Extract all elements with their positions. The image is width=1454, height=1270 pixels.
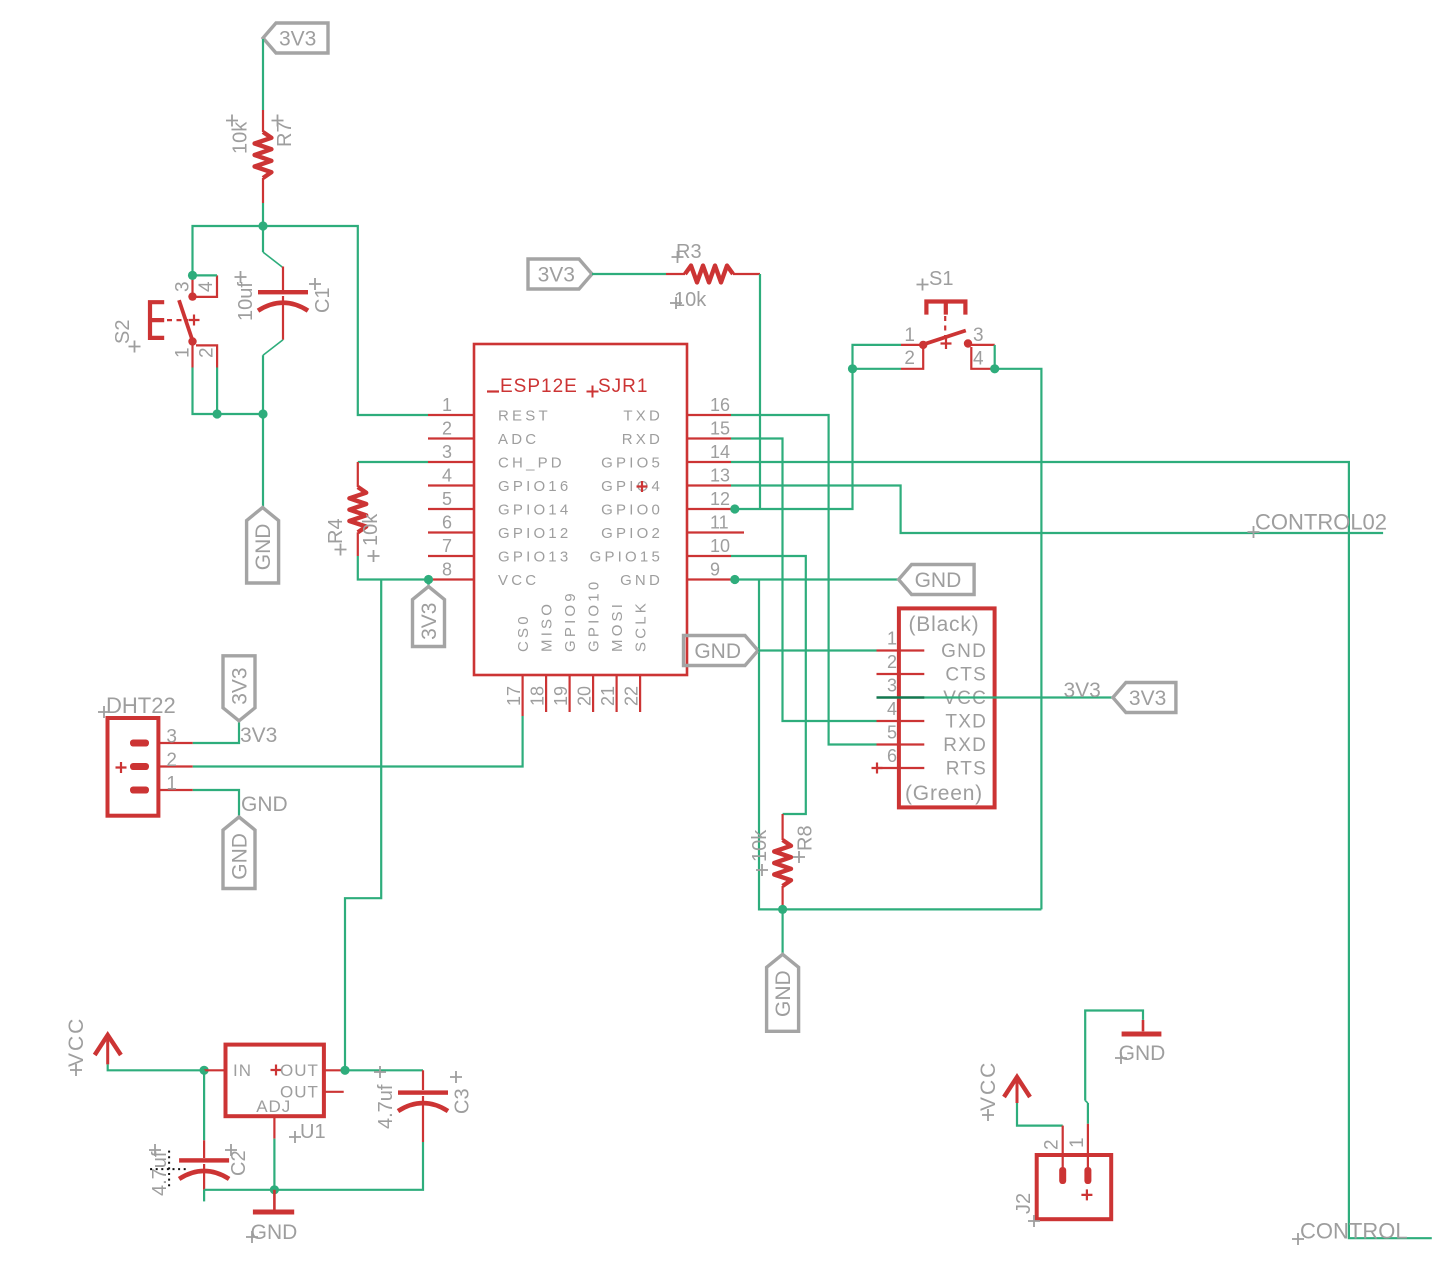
svg-text:(Green): (Green) — [905, 782, 983, 805]
svg-text:RXD: RXD — [622, 431, 663, 448]
svg-text:1: 1 — [1067, 1137, 1088, 1148]
ground flag GND (to FTDI pin1) — [684, 636, 759, 666]
selection crosshair at C2 label — [150, 1151, 187, 1188]
svg-text:SCLK: SCLK — [633, 600, 650, 652]
R4 body — [357, 462, 359, 487]
switch S2 (reset button) — [112, 275, 218, 367]
S1 pin 4 link — [971, 347, 994, 369]
svg-text:CS0: CS0 — [515, 613, 532, 652]
svg-text:(Black): (Black) — [909, 613, 980, 636]
SJR1 pin 21 MOSI — [615, 675, 617, 712]
ground symbol GND (below U1) — [246, 1190, 297, 1244]
R3 body — [666, 273, 685, 275]
supply arrow VCC (left) — [65, 1017, 121, 1076]
svg-text:3: 3 — [887, 676, 897, 696]
S1 origin cross — [941, 338, 952, 349]
wire TXD pin16 to FTDI RXD — [731, 415, 877, 745]
svg-text:2: 2 — [904, 348, 915, 369]
svg-text:SJR1: SJR1 — [598, 376, 648, 397]
S2 lever — [179, 300, 193, 343]
wire R3 to GPIO0 net — [759, 274, 761, 509]
wire GND net down to rail — [759, 580, 1041, 910]
C1 body — [282, 267, 284, 291]
svg-text:4.7uf: 4.7uf — [375, 1084, 397, 1129]
svg-text:CONTROL02: CONTROL02 — [1255, 510, 1387, 535]
supply flag 3V3 (right of FTDI) — [1113, 683, 1176, 713]
svg-text:GND: GND — [1119, 1042, 1166, 1065]
C3 body — [422, 1070, 424, 1090]
wire C3 bottom to GND rail — [204, 1142, 423, 1190]
wire DHT22 pin1 to GND flag — [193, 790, 239, 817]
wire node down to GND flag — [262, 414, 264, 508]
supply arrow VCC (right) — [977, 1061, 1030, 1121]
svg-text:RTS: RTS — [946, 759, 987, 780]
svg-text:GPIO12: GPIO12 — [498, 525, 571, 542]
node S1 pins 1-2 — [848, 364, 857, 373]
wire VCC to J2 pin2 — [1017, 1103, 1063, 1126]
S2 pin 2 link — [196, 345, 217, 367]
svg-text:CONTROL: CONTROL — [1300, 1219, 1408, 1244]
node R8 bottom / GND rail — [778, 905, 787, 914]
ground flag GND (below S2) — [247, 508, 279, 584]
FTDI origin cross — [872, 763, 883, 774]
node U1 IN / C2 — [200, 1066, 209, 1075]
capacitor C2 4.7uF (input) — [149, 1070, 250, 1201]
svg-text:GPIO2: GPIO2 — [601, 525, 663, 542]
S2 pin 3 stub and contact — [191, 276, 193, 294]
svg-text:10k: 10k — [749, 829, 771, 862]
svg-text:GPIO14: GPIO14 — [498, 502, 571, 519]
S2 pin 1 stub and contact — [188, 337, 196, 345]
svg-text:U1: U1 — [300, 1121, 326, 1143]
wire 3V3 flag to R7 top — [262, 39, 264, 110]
svg-text:17: 17 — [504, 686, 524, 706]
svg-text:3V3: 3V3 — [538, 264, 575, 287]
FTDI pin 5 RXD — [877, 743, 925, 745]
node GND rail / U1 ADJ — [270, 1185, 279, 1194]
svg-text:2: 2 — [442, 419, 452, 439]
wire RXD pin15 to FTDI TXD — [731, 439, 877, 722]
svg-text:18: 18 — [528, 686, 548, 706]
capacitor C1 10uF (on REST) — [235, 226, 335, 414]
SJR1 pin 13 GPIO4 — [687, 484, 731, 486]
wire S1 pin3 corner — [994, 345, 996, 369]
svg-text:13: 13 — [710, 466, 730, 486]
wire S2 pin1 down to ground rail — [193, 368, 264, 415]
ground flag GND (below R8) — [767, 954, 799, 1031]
svg-text:TXD: TXD — [945, 712, 987, 733]
svg-text:R3: R3 — [676, 241, 702, 263]
svg-text:TXD: TXD — [623, 408, 663, 425]
node GND pin 9 — [730, 575, 739, 584]
ground flag GND (below DHT22 pin1) — [223, 817, 255, 889]
U1 body outline — [226, 1045, 324, 1117]
C2 body — [203, 1140, 205, 1158]
SJR1 pin 8 VCC — [428, 578, 474, 580]
svg-text:1: 1 — [904, 325, 915, 346]
svg-text:3: 3 — [973, 325, 984, 346]
svg-text:GPIO10: GPIO10 — [586, 579, 603, 652]
svg-text:21: 21 — [598, 686, 618, 706]
svg-text:19: 19 — [551, 686, 571, 706]
resistor R3 10k (GPIO0 pull-up) — [666, 241, 760, 311]
svg-text:9: 9 — [710, 560, 720, 580]
S1 pin 1 stub and contact — [901, 344, 920, 346]
SJR1 pin 12 GPIO0 — [687, 508, 731, 510]
resistor R8 10k (GPIO15 pull-down) — [749, 814, 817, 905]
svg-text:ADC: ADC — [498, 431, 539, 448]
svg-text:GPIO4: GPIO4 — [601, 478, 663, 495]
wire GPIO15 pin10 to R8 — [731, 556, 806, 814]
svg-text:R4: R4 — [325, 518, 347, 544]
svg-text:4: 4 — [973, 349, 984, 370]
SJR1 pin 4 GPIO16 — [428, 484, 474, 486]
SJR1 pin 10 GPIO15 — [687, 555, 731, 557]
U1 pin OUT stub — [324, 1069, 345, 1071]
wire U1 IN node to C2 — [203, 1070, 205, 1140]
ground symbol GND (above J2) — [1115, 1020, 1165, 1065]
svg-text:GND: GND — [694, 640, 741, 663]
svg-text:OUT: OUT — [280, 1061, 319, 1080]
wire 3V3 net down to regulator output — [345, 580, 381, 1071]
svg-text:20: 20 — [575, 686, 595, 706]
J2 body outline — [1037, 1155, 1112, 1219]
svg-text:REST: REST — [498, 408, 551, 425]
svg-text:3V3: 3V3 — [1064, 679, 1101, 702]
U1 pin IN stub — [204, 1069, 225, 1071]
GND symbol bar (J2) — [1142, 1020, 1145, 1031]
SJR1 pin 22 SCLK — [639, 675, 641, 712]
svg-text:GPIO13: GPIO13 — [498, 549, 571, 566]
SJR1 pin 9 GND — [687, 578, 731, 580]
svg-text:ESP12E: ESP12E — [500, 376, 578, 397]
svg-text:MOSI: MOSI — [609, 601, 626, 652]
connector DHT22 — [98, 693, 193, 816]
svg-text:C1: C1 — [312, 287, 334, 313]
wire GPIO0 pin 12 to S1 — [735, 369, 853, 509]
svg-text:3V3: 3V3 — [418, 603, 441, 640]
svg-text:7: 7 — [442, 536, 452, 556]
SJR1 pin 17 CS0 — [521, 675, 523, 716]
ground flag GND (right of ESP pin 9) — [899, 565, 975, 595]
wire GPIO4 pin13 to CONTROL02 net — [731, 486, 1383, 534]
SJR1 value label ESP12E — [487, 390, 499, 392]
svg-text:GND: GND — [772, 970, 795, 1017]
wire R7 bottom to node REST — [262, 203, 264, 226]
svg-text:C3: C3 — [452, 1088, 474, 1114]
svg-text:8: 8 — [442, 560, 452, 580]
FTDI pin 3 VCC — [877, 696, 925, 698]
svg-text:ADJ: ADJ — [256, 1097, 291, 1116]
U1 pin ADJ stub — [273, 1116, 275, 1139]
node S2 pin3 — [188, 271, 197, 280]
U1 pin OUT2 stub — [324, 1091, 344, 1093]
VCC arrow symbol — [95, 1035, 121, 1055]
svg-text:6: 6 — [442, 513, 452, 533]
R8 body — [781, 814, 783, 840]
svg-text:3V3: 3V3 — [279, 28, 316, 51]
supply flag 3V3 (below ESP pin 8) — [413, 587, 445, 647]
svg-text:16: 16 — [710, 395, 730, 415]
svg-text:3V3: 3V3 — [240, 724, 277, 747]
SJR1 pin 3 CH_PD — [428, 461, 474, 463]
wire DHT22 pin3 to 3V3 flag — [193, 721, 239, 743]
svg-text:5: 5 — [887, 723, 897, 743]
J2 pin 1 stub and contact — [1087, 1124, 1089, 1170]
SJR1 pin 14 GPIO5 — [687, 461, 731, 463]
svg-text:1: 1 — [166, 774, 177, 795]
svg-text:GPIO16: GPIO16 — [498, 478, 571, 495]
svg-text:22: 22 — [622, 686, 642, 706]
wire S1 pin2 to net — [853, 368, 902, 370]
FTDI body outline — [899, 608, 995, 807]
svg-text:1: 1 — [887, 629, 897, 649]
svg-text:3: 3 — [166, 727, 177, 748]
DHT22 body outline — [108, 718, 159, 816]
wire node to 3V3 flag — [427, 580, 429, 587]
FTDI pin 6 RTS — [877, 767, 925, 769]
SJR1 pin 16 TXD — [687, 414, 731, 416]
SJR1 pin 5 GPIO14 — [428, 508, 474, 510]
node S1 pins 3-4 — [990, 364, 999, 373]
net label CONTROL — [1292, 1219, 1408, 1246]
J2 pin 2 stub and contact — [1062, 1126, 1064, 1170]
svg-text:15: 15 — [710, 419, 730, 439]
FTDI pin 2 CTS — [877, 673, 925, 675]
wire GPIO5 pin14 to CONTROL net — [731, 462, 1432, 1238]
svg-text:1: 1 — [173, 347, 194, 358]
svg-text:2: 2 — [887, 652, 897, 672]
SJR1 pin 6 GPIO12 — [428, 531, 474, 533]
DHT22 pin contacts and stubs — [130, 740, 149, 747]
wire S2 pin2 down — [216, 368, 218, 415]
S1 actuator bracket — [926, 302, 965, 315]
wire FTDI VCC to 3V3 flag — [877, 696, 1113, 698]
DHT22 origin cross — [116, 762, 127, 773]
R7 body — [262, 110, 264, 132]
svg-text:CH_PD: CH_PD — [498, 455, 565, 472]
wire GND to J2 pin1 — [1085, 1011, 1143, 1101]
svg-text:GND: GND — [915, 569, 962, 592]
wire node to S2 branch (left) — [193, 226, 264, 275]
node S2 pin2 / rail — [213, 409, 222, 418]
S1 lever — [922, 331, 966, 345]
SJR1 body outline — [474, 344, 687, 675]
svg-text:R8: R8 — [795, 825, 817, 851]
node C1 bottom / ground rail — [258, 409, 267, 418]
supply flag 3V3 (top, net 3V3) — [263, 23, 328, 53]
resistor R7 10k (pull-up on REST) — [226, 110, 296, 203]
SJR1 origin cross — [637, 481, 648, 492]
SJR1 pin 7 GPIO13 — [428, 555, 474, 557]
resistor R4 10k (CH_PD pull-up) — [325, 462, 382, 562]
svg-text:GPIO5: GPIO5 — [601, 455, 663, 472]
svg-text:S2: S2 — [112, 320, 134, 344]
svg-text:VCC: VCC — [65, 1017, 88, 1067]
svg-text:GPIO0: GPIO0 — [601, 502, 663, 519]
net label CONTROL02 — [1248, 510, 1388, 539]
node GPIO0 pin 12 — [730, 504, 739, 513]
svg-text:6: 6 — [887, 746, 897, 766]
svg-text:VCC: VCC — [498, 572, 539, 589]
U1 origin cross — [271, 1065, 282, 1076]
svg-text:1: 1 — [442, 395, 452, 415]
supply flag 3V3 (at R3) — [528, 259, 592, 289]
wire DHT22 pin2 data to ESP pin17 — [193, 716, 523, 767]
svg-text:10k: 10k — [674, 289, 707, 311]
wire S2 pin3 to pin4 (green jumper) — [193, 274, 218, 276]
IC SJR1 ESP12E module — [428, 344, 744, 716]
wire GND pin9 to GND flag — [735, 578, 899, 580]
wire R4 bottom to VCC pin 8 — [358, 556, 429, 580]
wire C2 bottom stub — [203, 1190, 205, 1202]
svg-text:3: 3 — [173, 281, 194, 292]
wire CH_PD to R4 top — [358, 461, 428, 463]
svg-text:4: 4 — [196, 281, 217, 292]
svg-text:14: 14 — [710, 442, 730, 462]
wire GND flag to FTDI pin 1 — [758, 649, 877, 651]
S2 actuator dashed link — [167, 319, 188, 321]
svg-text:4: 4 — [887, 699, 897, 719]
wire to C1 top with jog — [262, 226, 264, 252]
svg-text:GND: GND — [941, 641, 987, 662]
svg-text:3V3: 3V3 — [229, 667, 252, 704]
SJR1 pin 2 ADC — [428, 437, 474, 439]
wire from C1 bottom with jog — [263, 340, 283, 355]
SJR1 pin 20 GPIO10 — [592, 675, 594, 712]
FTDI pin 4 TXD — [877, 720, 925, 722]
SJR1 pin 18 MISO — [545, 675, 547, 712]
svg-text:10k: 10k — [360, 513, 382, 546]
wire S1 pin4 to GND rail — [995, 369, 1042, 910]
svg-text:CTS: CTS — [945, 665, 987, 686]
switch S1 (flash button) — [901, 268, 995, 370]
S1 pin 3 stub and contact — [964, 339, 972, 347]
node U1 OUT — [340, 1066, 349, 1075]
svg-text:DHT22: DHT22 — [106, 693, 176, 718]
GND symbol bar — [273, 1190, 276, 1210]
SJR1 name label — [587, 386, 599, 398]
svg-text:IN: IN — [233, 1061, 252, 1080]
svg-text:4.7uf: 4.7uf — [149, 1151, 171, 1196]
wire 3V3 flag to R3 — [592, 273, 666, 275]
svg-text:10uf: 10uf — [235, 282, 257, 321]
SJR1 pin 19 GPIO9 — [568, 675, 570, 712]
svg-text:GND: GND — [620, 572, 663, 589]
node VCC pin 8 / 3V3 flag — [424, 575, 433, 584]
svg-text:3: 3 — [442, 442, 452, 462]
wire node to ESP REST pin 1 — [263, 226, 428, 415]
S2 origin cross — [189, 315, 200, 326]
svg-text:GPIO15: GPIO15 — [590, 549, 663, 566]
supply flag 3V3 (above DHT22 pin3) — [223, 656, 255, 721]
svg-text:12: 12 — [710, 489, 730, 509]
svg-text:3V3: 3V3 — [1129, 687, 1166, 710]
svg-text:S1: S1 — [929, 268, 953, 290]
wire to GND flag below R8 — [781, 909, 783, 954]
node REST junction at R7/S2/C1 — [258, 221, 267, 230]
capacitor C3 4.7uF (output) — [204, 1066, 473, 1190]
VCC arrow symbol (right) — [1004, 1077, 1030, 1097]
S1 pin 2 link — [901, 347, 923, 369]
wire overlap on VCC stub (dark) — [877, 696, 925, 698]
svg-text:5: 5 — [442, 489, 452, 509]
connector FTDI header (Black/Green) — [872, 608, 995, 807]
svg-text:GND: GND — [252, 524, 275, 571]
S2 pin 4 link — [196, 275, 217, 297]
svg-text:J2: J2 — [1013, 1193, 1035, 1214]
S2 actuator bracket — [150, 302, 164, 338]
wire U1 OUT to C3 — [345, 1069, 423, 1071]
SJR1 pin 1 REST — [428, 414, 474, 416]
svg-text:10: 10 — [710, 536, 730, 556]
regulator U1 — [204, 1045, 345, 1143]
svg-text:MISO: MISO — [539, 601, 556, 652]
svg-text:2: 2 — [1042, 1139, 1063, 1150]
svg-text:GND: GND — [241, 793, 288, 816]
J2 origin cross — [1081, 1189, 1092, 1200]
SJR1 pin 15 RXD — [687, 437, 731, 439]
svg-text:GPIO9: GPIO9 — [562, 590, 579, 652]
svg-text:GND: GND — [229, 833, 252, 880]
SJR1 pin 11 GPIO2 — [687, 531, 744, 533]
svg-text:VCC: VCC — [977, 1061, 1000, 1111]
FTDI pin 1 GND — [877, 649, 925, 651]
wire S1 pin1 to net — [853, 345, 902, 369]
connector J2 (power jack) — [1013, 1124, 1111, 1227]
svg-text:2: 2 — [197, 347, 218, 358]
S1 actuator dashed link — [944, 316, 946, 337]
svg-text:2: 2 — [166, 750, 177, 771]
svg-text:11: 11 — [710, 513, 729, 533]
wire U1 ADJ to GND rail — [273, 1139, 275, 1190]
wire VCC to U1 IN — [108, 1064, 204, 1070]
svg-text:RXD: RXD — [943, 735, 987, 756]
svg-text:4: 4 — [442, 466, 452, 486]
svg-text:GND: GND — [251, 1221, 298, 1244]
